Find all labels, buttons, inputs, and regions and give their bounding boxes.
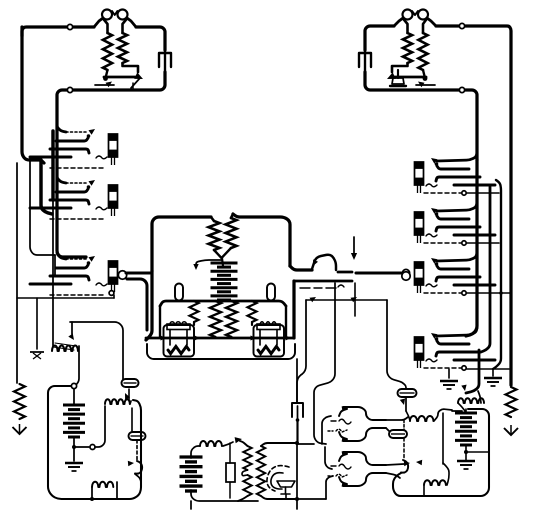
wire	[22, 27, 94, 36]
battery B4	[455, 409, 477, 451]
arrow	[89, 180, 96, 186]
ground	[65, 447, 83, 471]
squiggle	[300, 285, 344, 288]
wire	[356, 271, 401, 274]
wire	[136, 27, 165, 50]
capacitor C3	[292, 403, 303, 422]
wire	[322, 416, 331, 444]
wire	[387, 300, 406, 389]
jack lead	[437, 203, 477, 211]
rail	[146, 337, 294, 340]
coil RL1	[105, 399, 130, 404]
ground	[30, 352, 44, 359]
wire	[403, 420, 405, 430]
jack spring	[436, 177, 480, 181]
jack sleeve	[424, 191, 466, 195]
node	[459, 23, 464, 28]
wire	[76, 346, 79, 385]
wire	[478, 391, 481, 403]
resistor box	[226, 463, 235, 482]
battery B3	[180, 457, 203, 491]
wire	[412, 11, 418, 15]
plug P	[109, 134, 118, 165]
wire	[427, 18, 436, 26]
lamp G4	[418, 10, 428, 20]
coil RL3	[200, 441, 222, 446]
node	[459, 87, 464, 92]
lamp L2	[129, 432, 146, 440]
jack spring	[435, 262, 469, 269]
jack spring	[30, 207, 71, 210]
wire	[386, 417, 408, 420]
wire	[113, 295, 115, 298]
arrow	[89, 256, 96, 262]
coil T2b	[243, 475, 251, 496]
lamp	[267, 284, 275, 301]
wire	[297, 443, 314, 445]
bus wire	[466, 350, 479, 393]
plug P	[415, 337, 424, 368]
jack lead	[437, 153, 477, 161]
node	[402, 269, 409, 276]
jack spring	[30, 283, 71, 286]
wire	[354, 283, 356, 316]
bus wire	[466, 160, 477, 336]
contact hook	[193, 260, 222, 270]
jack lead	[66, 131, 88, 133]
coil	[226, 301, 237, 337]
wire	[22, 27, 44, 163]
sleeve wire	[467, 368, 509, 370]
key contact	[343, 428, 386, 441]
squiggle	[328, 429, 347, 432]
lamp L4	[389, 430, 407, 438]
contact	[104, 72, 143, 79]
coil RL4	[410, 416, 433, 421]
node	[109, 291, 114, 296]
wire	[126, 271, 150, 274]
jack lead	[437, 253, 477, 261]
plug tip circle	[118, 271, 126, 279]
wire	[423, 485, 425, 496]
jack spring	[435, 337, 469, 344]
rail	[147, 344, 295, 359]
squiggle	[96, 156, 107, 159]
wire	[297, 498, 326, 500]
wire	[229, 443, 231, 463]
dot	[464, 450, 468, 454]
dot	[90, 497, 94, 501]
wire	[386, 464, 404, 465]
wire	[112, 11, 117, 15]
battery B1	[211, 263, 238, 300]
wire	[406, 411, 410, 421]
arrow	[251, 336, 257, 341]
tube V1	[164, 322, 195, 357]
wire	[136, 440, 138, 460]
plug P	[415, 162, 424, 193]
squiggle	[328, 474, 347, 477]
lamp G1	[102, 10, 112, 20]
contact	[387, 72, 426, 79]
wire	[94, 18, 103, 27]
capacitor C2	[359, 50, 371, 72]
lamp L1	[122, 379, 139, 387]
wire	[17, 297, 114, 299]
squiggle	[426, 284, 437, 287]
wire	[127, 18, 136, 27]
wire	[91, 487, 93, 497]
wire	[261, 443, 296, 446]
key contact	[343, 452, 386, 465]
wire	[452, 410, 462, 412]
contact arrow	[95, 78, 140, 90]
jack lead	[57, 250, 66, 259]
wire	[386, 428, 389, 431]
plug P	[109, 185, 118, 216]
arrow	[125, 389, 130, 400]
wire	[222, 258, 223, 266]
jack sleeve	[50, 294, 106, 296]
jack sleeve	[50, 218, 106, 220]
squiggle	[426, 234, 437, 237]
wire	[57, 72, 165, 257]
coil T2c	[257, 446, 265, 496]
wire	[297, 300, 306, 402]
wire	[292, 281, 295, 338]
wire	[326, 476, 333, 499]
wire	[74, 446, 89, 448]
coil RET1	[52, 343, 78, 351]
wire	[290, 266, 312, 270]
jack spring	[454, 359, 495, 362]
coil L2	[118, 19, 127, 64]
wire	[296, 359, 298, 402]
coil RL2	[92, 482, 113, 487]
dot	[295, 441, 299, 445]
lamp L3	[398, 389, 417, 397]
jack spring	[50, 149, 89, 153]
wire	[229, 482, 231, 498]
arrow	[286, 336, 292, 341]
sleeve wire	[467, 192, 499, 194]
ground	[13, 424, 27, 434]
coil	[210, 301, 221, 337]
wire	[251, 322, 253, 325]
capacitor C1	[159, 50, 171, 72]
wire	[160, 301, 286, 306]
arrow	[235, 437, 242, 443]
jack lead	[437, 328, 477, 336]
coil T1a	[209, 217, 220, 250]
wire	[394, 18, 403, 26]
jack sleeve	[50, 167, 106, 169]
sleeve wire	[467, 291, 510, 295]
jack spring	[50, 276, 89, 280]
arrow	[351, 297, 358, 302]
jack lead	[57, 174, 66, 183]
wire	[294, 280, 352, 283]
ground	[457, 452, 475, 469]
jack sleeve	[424, 366, 466, 370]
box wire	[70, 322, 123, 379]
wire	[285, 306, 287, 337]
key contact	[339, 406, 348, 416]
sleeve wire	[467, 242, 499, 244]
plug P	[109, 261, 118, 292]
wire	[296, 499, 298, 509]
wire	[103, 70, 108, 81]
wire	[71, 322, 73, 334]
squiggle	[331, 419, 351, 424]
wire	[403, 438, 405, 459]
wire	[338, 271, 352, 274]
wire	[365, 26, 394, 50]
box	[48, 386, 141, 499]
jack spring	[56, 134, 90, 141]
coil RL6	[424, 480, 446, 485]
receiver cap	[277, 481, 295, 494]
wire	[131, 408, 133, 431]
arrow	[431, 333, 438, 339]
battery B2	[63, 389, 85, 446]
lamp	[175, 284, 183, 301]
contact hook	[128, 461, 142, 474]
jack spring	[50, 200, 89, 204]
squiggle	[426, 184, 437, 187]
key contact	[343, 473, 386, 486]
squiggle	[96, 207, 107, 210]
wire	[233, 214, 290, 266]
wire	[314, 283, 335, 444]
jack spring	[454, 284, 495, 287]
arrow	[310, 297, 317, 302]
lamp stem	[390, 70, 406, 86]
wire	[261, 496, 295, 499]
plug tip circle	[402, 272, 410, 280]
wire	[191, 490, 258, 501]
arrow	[431, 208, 438, 214]
resistor	[190, 301, 199, 322]
wire	[238, 496, 248, 501]
wire	[458, 403, 465, 411]
wire	[365, 72, 477, 160]
arrow	[68, 334, 74, 341]
resistor	[506, 387, 517, 417]
wire	[36, 298, 38, 349]
jack spring	[435, 212, 469, 219]
ground	[440, 369, 458, 389]
wire	[466, 451, 489, 453]
key contact	[339, 477, 348, 487]
bus wire	[41, 160, 52, 214]
resistor	[14, 384, 25, 419]
squiggle	[96, 283, 107, 286]
wire	[423, 70, 428, 81]
jack sleeve	[424, 291, 466, 295]
arrow	[461, 385, 466, 391]
coil T1b	[226, 214, 237, 248]
bus wire	[16, 163, 18, 383]
wire	[296, 443, 298, 499]
receiver	[267, 466, 289, 491]
jack sleeve	[424, 241, 466, 245]
wire	[152, 217, 211, 271]
key contact	[339, 432, 348, 442]
wire	[116, 482, 118, 499]
lamp G3	[403, 10, 413, 20]
wire	[405, 397, 407, 411]
plug P	[415, 212, 424, 243]
wire	[242, 470, 248, 476]
jack spring	[56, 261, 90, 268]
coil RL5	[458, 398, 484, 403]
dot	[72, 445, 76, 449]
wire	[95, 406, 105, 447]
node	[67, 87, 72, 92]
wire	[123, 63, 139, 72]
ground	[504, 425, 518, 435]
wire	[442, 413, 444, 464]
coil R1	[403, 19, 412, 64]
wire	[223, 442, 233, 446]
resistor	[248, 301, 257, 322]
wire	[190, 501, 192, 509]
wire	[191, 446, 200, 458]
wire	[214, 248, 231, 258]
jack spring	[56, 185, 90, 192]
bus wire	[481, 187, 490, 352]
wire	[325, 447, 332, 469]
jack spring	[436, 277, 480, 281]
tube V2	[254, 322, 285, 357]
arrow	[89, 129, 96, 135]
node	[71, 383, 76, 388]
key contact	[343, 407, 386, 420]
jack spring	[454, 234, 495, 237]
dot	[295, 497, 299, 501]
arrow	[404, 461, 410, 466]
wire	[436, 26, 511, 385]
wire	[306, 299, 387, 301]
jack lead	[57, 123, 66, 132]
key contact	[339, 451, 348, 461]
ground	[484, 369, 502, 386]
wire	[443, 463, 449, 485]
contact hook	[401, 460, 422, 473]
wire	[54, 255, 56, 275]
squiggle	[426, 359, 437, 362]
wire	[392, 63, 408, 72]
node	[67, 24, 72, 29]
jack lead	[66, 258, 88, 260]
jack spring	[436, 227, 480, 231]
wire	[130, 401, 131, 404]
contact	[312, 255, 336, 270]
jack spring	[30, 156, 71, 159]
wire	[135, 474, 141, 482]
arrow	[161, 336, 167, 341]
wire	[285, 494, 287, 499]
contact arrow	[416, 82, 435, 88]
node	[90, 445, 95, 450]
wire	[240, 441, 248, 446]
bus wire	[51, 131, 54, 200]
jack spring	[454, 184, 495, 187]
wire	[386, 473, 400, 478]
arrow	[195, 336, 201, 341]
arrow	[431, 158, 438, 164]
jack lead	[66, 182, 88, 184]
coil T2a	[243, 446, 251, 470]
plug P	[415, 262, 424, 293]
jack spring	[436, 352, 480, 356]
arrow sym	[351, 237, 357, 260]
coil R2	[418, 19, 427, 71]
wire	[296, 420, 298, 444]
jack spring	[435, 162, 469, 169]
squiggle	[331, 464, 351, 469]
arrow	[400, 399, 405, 406]
bus wire	[493, 180, 501, 369]
wire	[193, 322, 195, 325]
lamp G2	[118, 10, 128, 20]
bus wire	[52, 200, 54, 346]
wire	[434, 409, 452, 421]
wire	[159, 306, 161, 337]
coil L1	[103, 19, 112, 71]
bus wire	[146, 271, 152, 340]
box	[393, 409, 489, 496]
bus wire	[30, 157, 55, 255]
wire	[127, 279, 147, 330]
arrow	[431, 258, 438, 264]
